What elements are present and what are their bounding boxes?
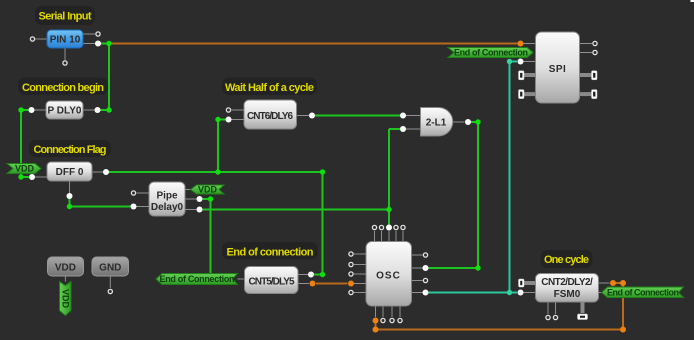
pin OSC left 3 (open) xyxy=(349,272,353,276)
pin PIN10 right 2 (connected) xyxy=(95,41,101,47)
pin stub CNT2 right 1 xyxy=(599,282,610,284)
junction Pipe output 3 branch xyxy=(386,207,391,212)
svg-text:End of Connection: End of Connection xyxy=(160,274,235,284)
pin OSC top 4 (open) xyxy=(394,225,398,229)
pin stub CNT6 input 2 xyxy=(232,119,245,121)
svg-text:FSM0: FSM0 xyxy=(554,289,581,300)
label Connection Flag xyxy=(29,140,111,157)
scrollbar corner sliver xyxy=(691,0,694,2)
pin stub DFF bottom xyxy=(69,181,71,193)
pin SPI right square 2 xyxy=(592,90,598,99)
pin stub CNT2 left square xyxy=(524,281,536,285)
block Pipe Delay0 xyxy=(149,182,185,216)
pin stubs CNT2 bottom xyxy=(548,302,556,314)
wire CNT6/DLY6 output to 2-L1 input 1 xyxy=(315,115,401,117)
block DFF 0 xyxy=(47,162,92,181)
pin 2-L1 output (connected) xyxy=(465,119,471,125)
pin stub GND xyxy=(109,276,111,288)
pin stub SPI left 3 xyxy=(524,61,536,63)
wire vertical down to CNT5 output node xyxy=(322,172,324,275)
svg-text:OSC: OSC xyxy=(376,271,401,282)
pin CNT5 output 1 (connected) xyxy=(308,272,314,278)
wire DFF 0 output horizontal xyxy=(108,171,323,173)
pin stub CNT5 flag xyxy=(238,278,245,280)
wire vertical 2-L1 output down to OSC right pin 2 xyxy=(477,122,479,268)
pin P DLY0 right (connected) xyxy=(95,107,101,113)
pin stub PIN10 right 2 xyxy=(83,43,95,45)
pin stub 2-L1 input 1 xyxy=(406,115,421,117)
junction OSC right 2 corner xyxy=(475,265,480,270)
wire OSC right pin 4 to CNT2 (teal net) xyxy=(429,292,510,294)
pin stub CNT6 input 1 xyxy=(232,109,245,111)
pin stub 2-L1 input 2 xyxy=(406,128,421,130)
pin Pipe output 2 (connected) xyxy=(197,196,203,202)
wire to CNT5/DLY5 output pin xyxy=(314,274,323,276)
pin OSC left 2 (open) xyxy=(349,262,353,266)
pin OSC right 3 (open) xyxy=(423,278,427,282)
junction 2-L1 output corner xyxy=(475,119,480,124)
block CNT5/DLY5 xyxy=(245,267,299,294)
pin stub Pipe output 3 xyxy=(185,209,197,211)
wire vertical branch up to CNT6 input xyxy=(217,120,219,173)
gate 2-L1 (AND) xyxy=(421,108,453,137)
pin stub PIN10 bottom xyxy=(64,48,66,60)
svg-text:CNT5/DLY5: CNT5/DLY5 xyxy=(249,277,295,288)
pin stub SPI right 1 xyxy=(580,43,593,45)
pin Pipe input 2 (connected) xyxy=(131,204,137,210)
svg-text:GND: GND xyxy=(99,263,121,274)
pin stub Pipe output 1 xyxy=(185,189,191,191)
wire CNT5 output 2 to OSC left pin (orange) xyxy=(316,283,348,285)
pin SPI left 3 (connected) xyxy=(518,59,524,65)
wire orange bottom horizontal xyxy=(376,329,624,331)
pin CNT2 left square xyxy=(519,279,525,287)
pin OSC right 1 (open) xyxy=(423,253,427,257)
svg-text:Serial Input: Serial Input xyxy=(39,11,92,23)
pin CNT2 bottom 1 (open) xyxy=(546,315,550,319)
svg-text:Connection begin: Connection begin xyxy=(22,82,104,94)
svg-text:End of connection: End of connection xyxy=(227,247,314,259)
svg-text:VDD: VDD xyxy=(15,164,35,174)
svg-text:CNT6/DLY6: CNT6/DLY6 xyxy=(247,111,293,122)
pin CNT6 input 2 (connected) xyxy=(226,117,232,123)
power flag VDD at DFF input 1 xyxy=(7,164,41,174)
pin stub CNT2 left 2 xyxy=(524,292,536,294)
wire vertical down to End of Connection flag xyxy=(210,199,212,276)
block CNT6/DLY6 xyxy=(244,100,297,129)
wire vertical PIN10 junction to P DLY0 output xyxy=(108,44,110,111)
pin SPI right 2 (open) xyxy=(593,50,597,54)
pin stub Pipe input 1 xyxy=(137,192,150,194)
pin stub CNT5 output 1 xyxy=(298,274,308,276)
pin stub 2-L1 output xyxy=(453,121,465,123)
pin OSC left 1 (open) xyxy=(349,252,353,256)
block OSC xyxy=(366,242,412,307)
pin GND (open) xyxy=(108,289,112,293)
pin Pipe output 3 (connected) xyxy=(197,207,203,213)
junction DFF output branch to CNT6 xyxy=(215,169,220,174)
svg-text:DFF 0: DFF 0 xyxy=(56,167,84,178)
pin CNT6 input 1 (open) xyxy=(226,108,230,112)
wire Pipe Delay0 output 2 to junction xyxy=(203,198,211,200)
svg-text:End of Connection: End of Connection xyxy=(454,48,528,58)
wire junction to P DLY0 output pin xyxy=(100,109,109,111)
junction P DLY0 input node xyxy=(18,107,23,112)
pin stub P DLY0 right xyxy=(83,109,95,111)
junction PIN10 output node xyxy=(106,41,111,46)
wire vertical P DLY0 input down to DFF input xyxy=(20,110,22,177)
pin stub CNT2 bottom square xyxy=(581,302,585,313)
wire vertical 2-L1 input 2 down to OSC top pin xyxy=(388,129,390,228)
junction Pipe output 2 corner xyxy=(208,196,213,201)
wire DFF bottom pin down xyxy=(69,196,71,207)
pin stub PIN10 right 1 xyxy=(83,33,95,35)
power symbol VDD block xyxy=(48,257,84,276)
svg-text:P DLY0: P DLY0 xyxy=(48,106,82,117)
junction DFF bottom corner xyxy=(67,204,72,209)
junction CNT6 input node xyxy=(215,117,220,122)
svg-text:One cycle: One cycle xyxy=(544,254,589,266)
pin SPI right square 1 xyxy=(592,71,598,80)
pin PIN10 left (open) xyxy=(30,37,34,41)
pin stub SPI right square 1 xyxy=(580,73,592,77)
pin stubs OSC bottom xyxy=(376,306,401,317)
pin OSC top 5 (open) xyxy=(401,225,405,229)
label Serial Input xyxy=(35,6,95,25)
pin stub SPI right 2 xyxy=(580,52,593,54)
pin P DLY0 left (connected) xyxy=(29,107,35,113)
block SPI xyxy=(536,32,580,103)
pin DFF output (connected) xyxy=(103,169,109,175)
wire OSC right pin 2 to junction xyxy=(429,267,479,269)
wire 2-L1 output to junction xyxy=(471,121,479,123)
wire P DLY0 input left xyxy=(21,109,29,111)
pin CNT2 right 1 (orange connected) xyxy=(610,280,616,286)
label Connection begin xyxy=(18,78,108,96)
pin stub DFF input 2 xyxy=(35,176,47,178)
pin OSC bottom 4 (open) xyxy=(398,318,402,322)
pin SPI left square 2 xyxy=(519,90,525,99)
wire orange to CNT2 output pin xyxy=(613,282,623,284)
pin OSC top 3 (connected) xyxy=(386,225,392,231)
net flag End of Connection at CNT2 output 2 xyxy=(602,287,684,298)
pin OSC left 5 (open) xyxy=(349,290,353,294)
pin stub PIN10 left xyxy=(36,38,48,40)
wire OSC bottom pin down (orange) xyxy=(375,321,377,330)
pin OSC right 4 (connected) xyxy=(423,290,429,296)
block CNT2/DLY2/FSM0 xyxy=(536,274,599,303)
wire to Pipe Delay0 input 2 xyxy=(70,206,131,208)
junction DFF output corner xyxy=(320,169,325,174)
pin stub SPI left 1 xyxy=(524,43,536,45)
pin stubs OSC left xyxy=(354,254,366,293)
junction P DLY0 output node xyxy=(106,107,111,112)
svg-text:Wait Half of a cycle: Wait Half of a cycle xyxy=(225,82,314,94)
pin stub P DLY0 left xyxy=(35,109,47,111)
pin OSC left 4 (orange connected) xyxy=(348,281,354,287)
pin OSC bottom 2 (open) xyxy=(381,318,385,322)
pin PIN10 right 1 (open) xyxy=(96,32,100,36)
pin Pipe input 1 (open) xyxy=(131,191,135,195)
svg-text:Pipe: Pipe xyxy=(156,191,178,202)
wire to 2-L1 input 2 pin xyxy=(389,128,400,130)
pin OSC top 1 (open) xyxy=(372,225,376,229)
pin DFF bottom (connected) xyxy=(67,193,73,199)
junction teal SPI corner xyxy=(507,59,512,64)
pin CNT2 bottom 2 (open) xyxy=(553,315,557,319)
junction CNT5 output node xyxy=(320,272,325,277)
junction orange OSC bottom corner xyxy=(373,327,379,333)
net flag End of Connection at CNT5 input xyxy=(156,274,238,285)
junction DFF input node xyxy=(18,174,23,179)
junction orange bottom right corner xyxy=(620,327,626,333)
label End of connection xyxy=(222,242,318,260)
wire to DFF 0 input pin xyxy=(21,176,29,178)
pin stub CNT2 flag xyxy=(599,292,602,294)
pin SPI left square 1 xyxy=(519,71,525,80)
svg-text:Delay0: Delay0 xyxy=(151,202,184,213)
block P DLY0 xyxy=(46,101,83,119)
pin stub Pipe output 2 xyxy=(185,198,197,200)
pin stub CNT6 output xyxy=(297,115,310,117)
power flag VDD at Pipe Delay0 output 1 xyxy=(191,185,225,195)
pin CNT5 output 2 (orange connected) xyxy=(310,281,316,287)
pin stub VDD ribbon xyxy=(64,276,66,282)
pin stub SPI right square 2 xyxy=(580,92,592,96)
pin OSC bottom 1 (orange connected) xyxy=(373,318,379,324)
power ribbon VDD xyxy=(60,282,72,316)
wire teal to SPI input pin 3 xyxy=(510,61,518,63)
pin CNT6 output (connected) xyxy=(309,113,315,119)
wire teal to CNT2 input pin 2 xyxy=(510,292,518,294)
pin CNT2 left 2 (connected) xyxy=(518,290,524,296)
pin SPI right 1 (open) xyxy=(593,41,597,45)
pin stub SPI left square 2 xyxy=(524,92,536,96)
svg-text:2-L1: 2-L1 xyxy=(426,118,447,129)
wire PIN10 output to junction xyxy=(101,43,110,45)
pin stub Pipe input 2 xyxy=(137,206,150,208)
wire to CNT6/DLY6 input pin xyxy=(218,119,226,121)
svg-text:End of Connection: End of Connection xyxy=(607,288,679,298)
pin stubs OSC top xyxy=(375,231,404,242)
pin 2-L1 input 1 (connected) xyxy=(400,113,406,119)
net flag End of Connection at SPI input 2 xyxy=(448,48,533,58)
pin 2-L1 input 2 (connected) xyxy=(400,126,406,132)
block PIN 10 xyxy=(47,30,83,48)
pin DFF input 2 (connected) xyxy=(29,174,35,180)
svg-text:VDD: VDD xyxy=(198,185,218,195)
wire Pipe Delay0 output 3 to OSC column xyxy=(203,209,390,211)
svg-text:PIN 10: PIN 10 xyxy=(50,35,81,46)
pin stub SPI left square 1 xyxy=(524,73,536,77)
label One cycle xyxy=(541,250,593,268)
ground symbol GND block xyxy=(92,257,129,276)
svg-text:VDD: VDD xyxy=(55,263,76,274)
pin stub CNT5 output 2 xyxy=(298,283,309,285)
wire orange vertical up to CNT2 output xyxy=(622,283,624,330)
pin CNT2 bottom square pad xyxy=(578,314,588,320)
junction teal CNT2 node xyxy=(507,290,512,295)
pin stubs OSC right xyxy=(412,255,423,293)
pin OSC top 2 (open) xyxy=(379,225,383,229)
label Wait Half of a cycle xyxy=(222,78,317,96)
svg-text:SPI: SPI xyxy=(549,64,567,75)
pin OSC right 2 (connected) xyxy=(423,265,429,271)
pin PIN10 bottom (open) xyxy=(63,61,67,65)
pin OSC bottom 3 (open) xyxy=(390,318,394,322)
svg-text:CNT2/DLY2/: CNT2/DLY2/ xyxy=(541,277,593,288)
pin SPI left 1 (orange connected) xyxy=(518,41,524,47)
pin stub DFF output xyxy=(92,171,103,173)
svg-text:Connection Flag: Connection Flag xyxy=(34,144,107,156)
wire teal vertical up to SPI input xyxy=(509,62,511,293)
wire PIN10 to SPI (orange net) xyxy=(111,43,518,45)
svg-text:VDD: VDD xyxy=(60,289,70,309)
junction orange CNT2 output corner xyxy=(620,280,626,286)
